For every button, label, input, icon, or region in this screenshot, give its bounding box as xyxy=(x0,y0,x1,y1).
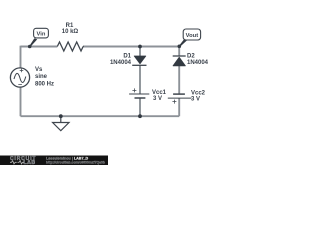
junction dot: ground stub on bottom rail xyxy=(59,114,63,118)
wire: Vcc2 + plate to bottom rail xyxy=(178,98,180,116)
ground stub wire xyxy=(60,116,62,122)
junction dot: Vcc1 branch on bottom rail xyxy=(138,114,142,118)
D2 cathode bar xyxy=(173,55,186,57)
wire: D2 anode to Vcc2 - plate xyxy=(178,66,180,94)
svg-text:Vout: Vout xyxy=(186,33,199,39)
junction dot: D1 branch on top rail xyxy=(138,45,142,49)
diode D2 xyxy=(173,53,209,66)
wire: D1 anode to top rail xyxy=(139,47,141,57)
Vcc2 plus polarity mark xyxy=(172,100,176,104)
Vcc2 positive long plate xyxy=(168,97,192,99)
Vcc1 negative short plate xyxy=(135,97,146,99)
Vcc1 plus polarity mark xyxy=(132,88,136,92)
D1 cathode bar xyxy=(132,64,146,66)
svg-text:3 V: 3 V xyxy=(191,97,200,103)
svg-text:LAB: LAB xyxy=(24,160,36,165)
node flag Vin xyxy=(28,28,48,48)
svg-text:http://circuitlab.com/c8633mzf: http://circuitlab.com/c8633mzf7Qa3b xyxy=(46,160,105,164)
diode D1 xyxy=(110,53,147,66)
svg-text:sine: sine xyxy=(35,74,48,80)
svg-text:Vs: Vs xyxy=(35,67,43,73)
D2 anode triangle (pointing up) xyxy=(173,57,185,66)
Vout flag box xyxy=(183,29,200,40)
svg-text:800 Hz: 800 Hz xyxy=(35,82,54,88)
wire: D2 cathode to top rail xyxy=(178,46,180,56)
Vin flag pointer tail xyxy=(29,38,37,47)
svg-text:Vin: Vin xyxy=(37,31,46,37)
wire: left vertical, Vs - terminal to bottom rail xyxy=(20,87,22,116)
Vin flag box xyxy=(34,28,49,38)
ground xyxy=(53,116,69,131)
wire: left vertical, top rail to Vs + terminal xyxy=(20,46,22,68)
wire: D1 cathode to Vcc1 + plate xyxy=(139,65,141,94)
svg-text:D1: D1 xyxy=(123,53,131,59)
resistor R1 zigzag body xyxy=(57,42,83,51)
wire: Vcc1 - plate to bottom rail xyxy=(139,98,141,116)
svg-text:3 V: 3 V xyxy=(153,96,162,102)
svg-text:D2: D2 xyxy=(187,53,195,59)
source Vs minus polarity mark xyxy=(18,84,22,86)
Vout flag pointer tail xyxy=(179,39,187,47)
resistor R1 xyxy=(57,23,83,51)
source Vs plus polarity mark xyxy=(20,69,24,73)
ground triangle xyxy=(53,123,69,131)
Vout flag anchor dot on node xyxy=(178,45,182,49)
svg-text:1N4004: 1N4004 xyxy=(187,60,209,66)
voltage source Vs xyxy=(10,67,54,88)
wire: top rail right of R1 (Vout node) xyxy=(83,46,179,48)
Vcc2 negative short plate xyxy=(173,93,185,95)
svg-text:1N4004: 1N4004 xyxy=(110,60,132,66)
source Vs circle body xyxy=(10,68,29,87)
Vcc1 positive long plate xyxy=(129,93,149,95)
svg-text:10 kΩ: 10 kΩ xyxy=(62,29,79,35)
wire: top rail left of R1 (Vin node) xyxy=(21,46,58,48)
Vin flag anchor dot on node xyxy=(28,45,32,49)
wire: bottom ground rail xyxy=(21,115,180,117)
D1 anode triangle (pointing down) xyxy=(134,56,146,64)
CircuitLab watermark bar xyxy=(0,156,108,167)
source Vs sine glyph xyxy=(14,73,26,82)
battery Vcc2 xyxy=(168,91,206,104)
battery Vcc1 xyxy=(129,88,167,102)
node flag Vout xyxy=(178,29,201,48)
